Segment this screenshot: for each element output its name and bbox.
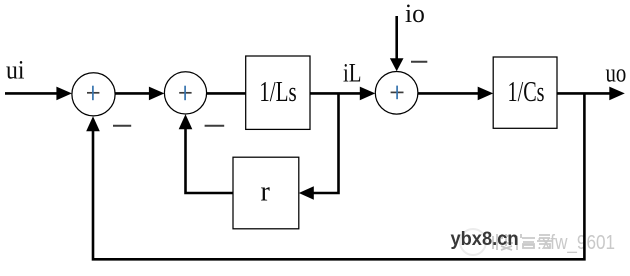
svg-text:io: io	[405, 0, 425, 28]
svg-text:1/Ls: 1/Ls	[259, 77, 297, 108]
svg-text:r: r	[261, 177, 271, 208]
svg-text:1/Cs: 1/Cs	[508, 77, 545, 108]
svg-text:iL: iL	[343, 59, 362, 88]
svg-text::xfw_9601: :xfw_9601	[537, 232, 615, 254]
svg-text:ybx8.cn: ybx8.cn	[451, 229, 519, 250]
svg-text:uo: uo	[606, 59, 627, 88]
svg-text:ui: ui	[6, 56, 25, 85]
